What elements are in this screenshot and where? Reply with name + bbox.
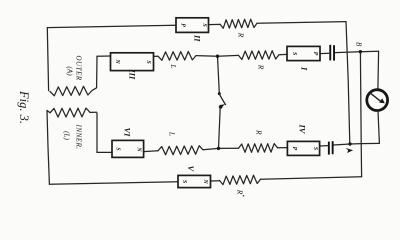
svg-text:R: R — [236, 189, 245, 195]
svg-text:S: S — [201, 23, 207, 27]
svg-text:V: V — [186, 165, 196, 172]
svg-text:OUTER: OUTER — [75, 55, 83, 80]
svg-text:N: N — [136, 146, 142, 152]
svg-text:B: B — [355, 42, 363, 47]
svg-text:INNER.: INNER. — [75, 124, 83, 150]
svg-text:VI: VI — [123, 128, 133, 138]
svg-text:(L): (L) — [63, 131, 71, 140]
svg-text:S: S — [181, 180, 187, 184]
svg-text:III: III — [128, 68, 138, 80]
svg-text:L: L — [168, 131, 177, 136]
svg-text:L: L — [169, 63, 178, 68]
svg-text:(A): (A) — [66, 66, 74, 76]
svg-text:P: P — [180, 23, 186, 27]
svg-text:S: S — [312, 147, 318, 151]
svg-text:S: S — [145, 60, 151, 64]
svg-text:S: S — [291, 52, 297, 56]
svg-text:S: S — [115, 147, 121, 151]
svg-text:I: I — [300, 66, 310, 71]
svg-text:Fig. 3.: Fig. 3. — [17, 90, 31, 124]
svg-text:R: R — [237, 32, 246, 38]
svg-text:IV: IV — [298, 124, 308, 135]
svg-text:P: P — [312, 52, 318, 56]
svg-text:N: N — [202, 178, 208, 184]
svg-text:II: II — [193, 34, 203, 42]
svg-text:R: R — [255, 129, 264, 135]
svg-text:R: R — [257, 64, 266, 70]
svg-text:N: N — [114, 58, 120, 64]
svg-text:P: P — [291, 147, 297, 151]
